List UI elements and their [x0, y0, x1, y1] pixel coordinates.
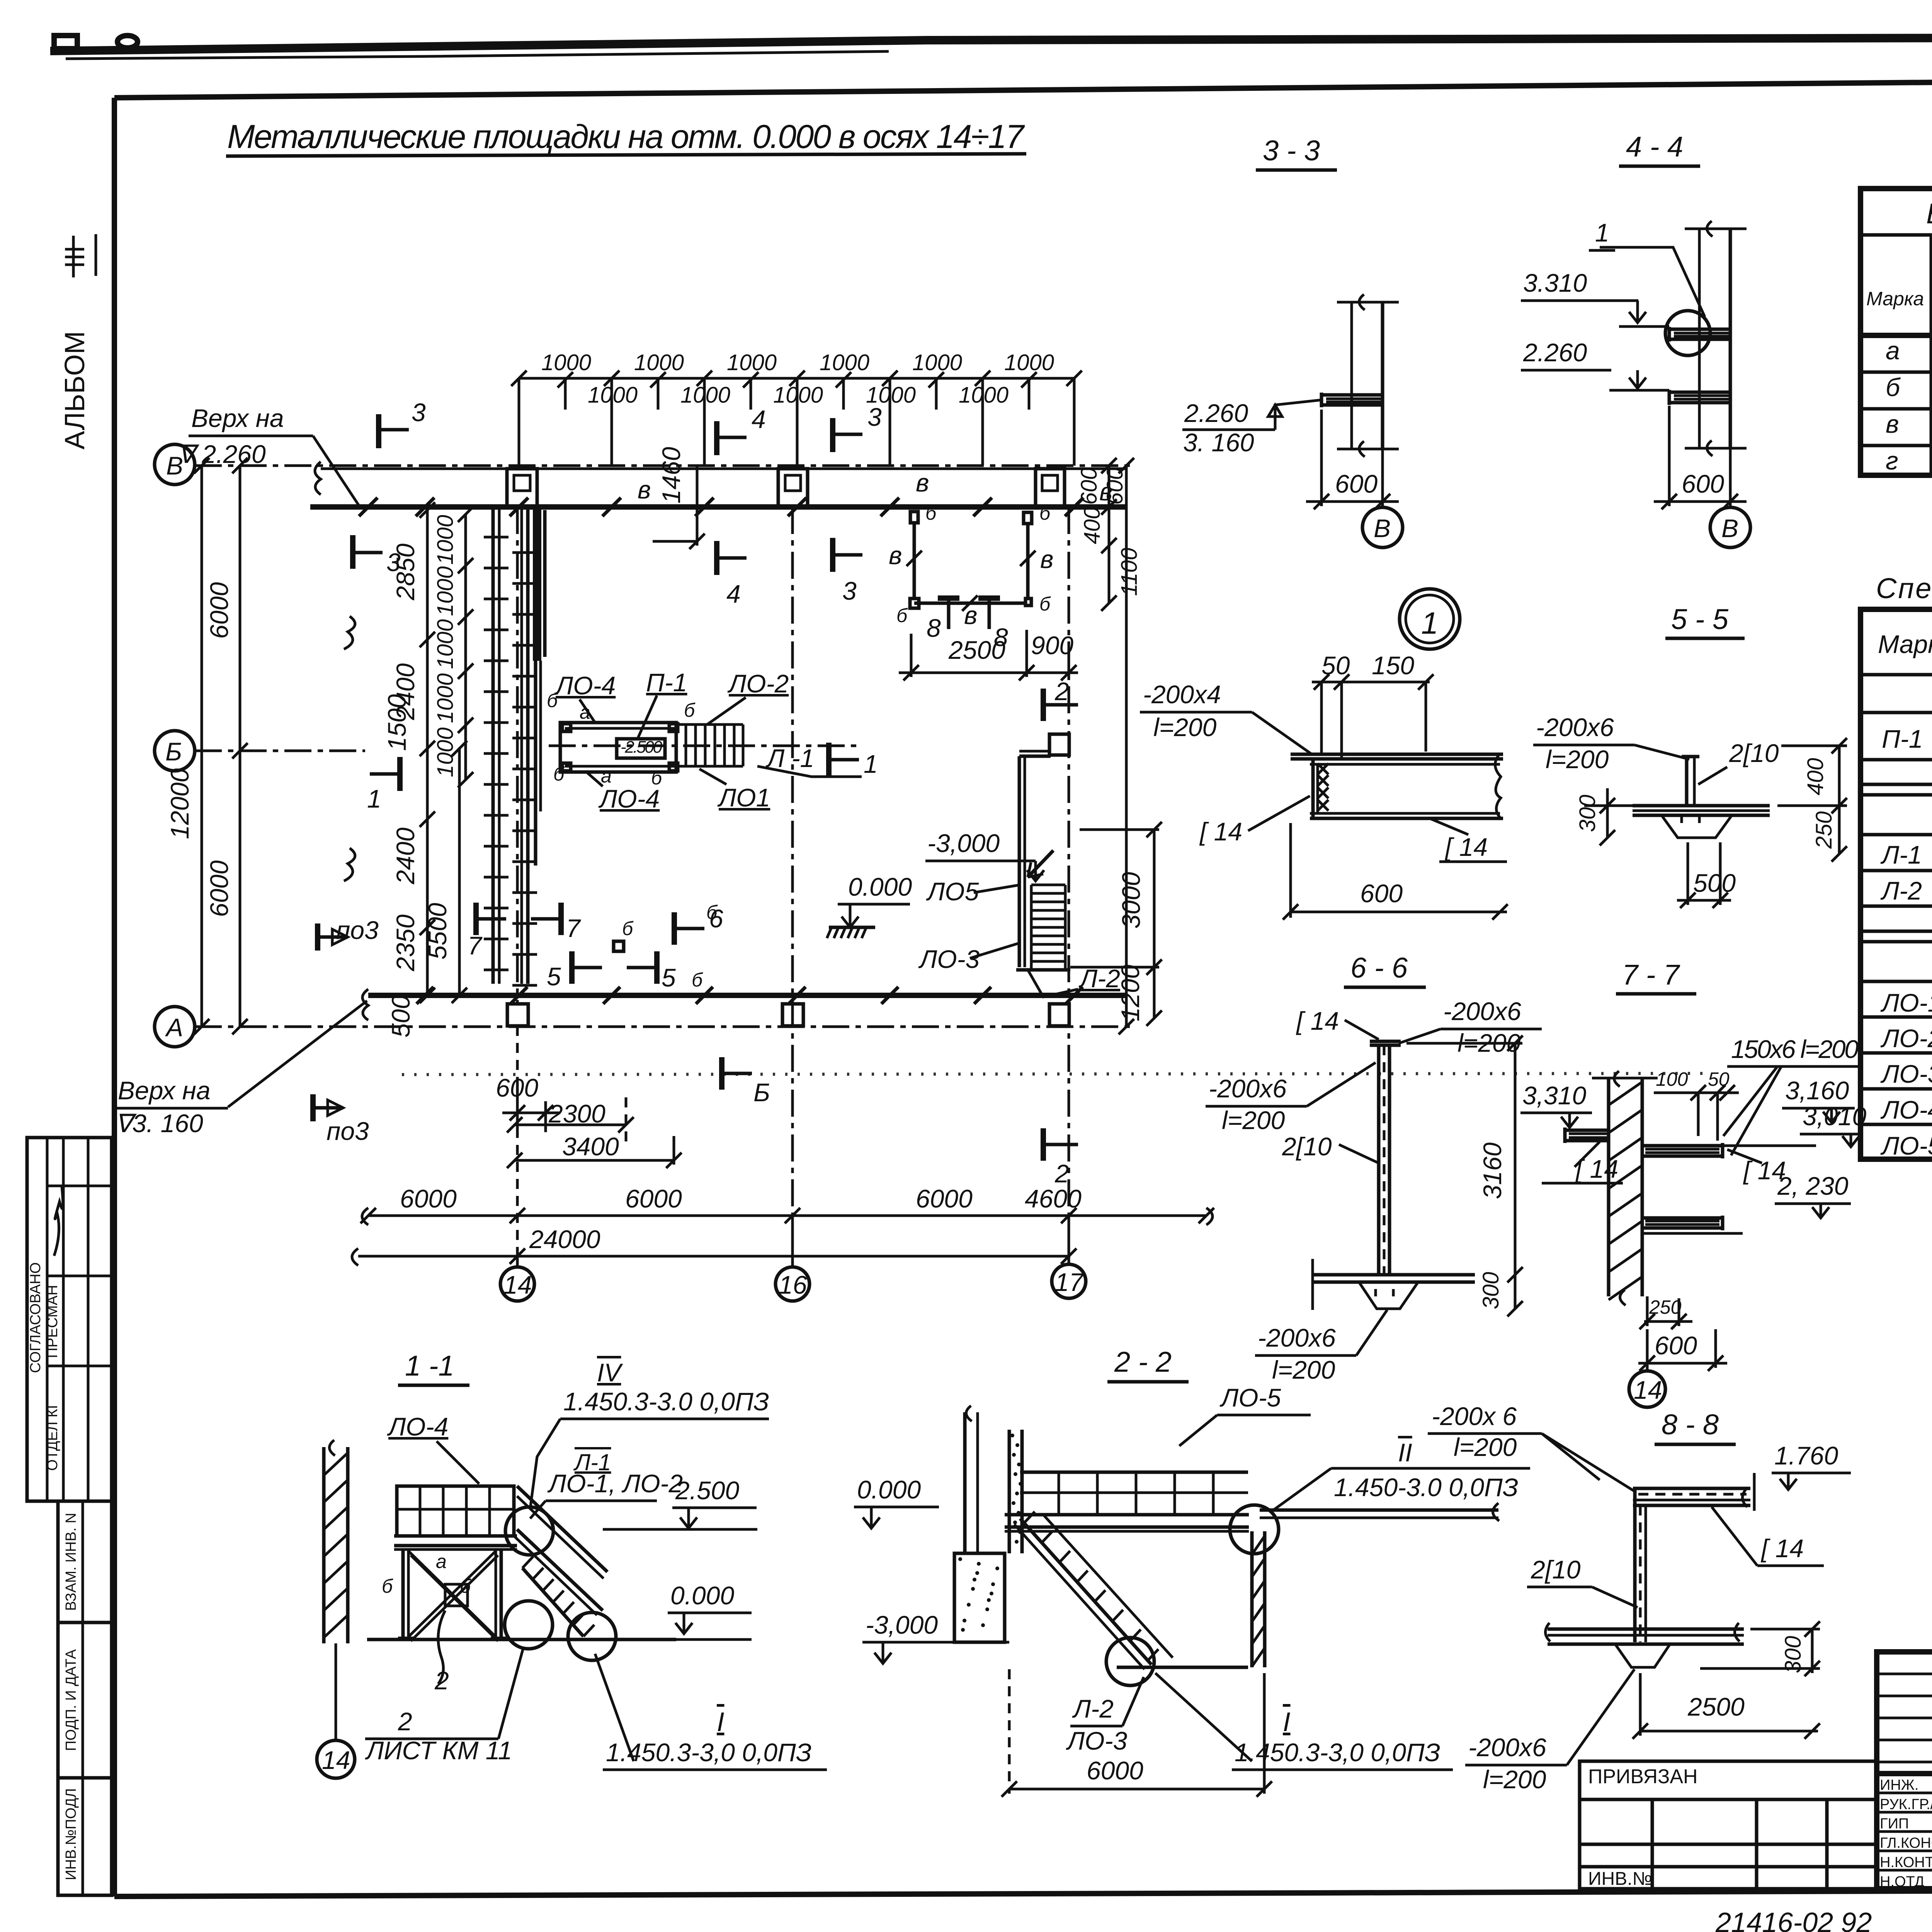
svg-text:ЛО-1: ЛО-1 [1880, 988, 1932, 1017]
4-4 column [1698, 229, 1701, 449]
6-6 left floor ticks [1311, 1259, 1314, 1310]
svg-text:[ 14: [ 14 [1199, 817, 1242, 846]
svg-text:Верх на: Верх на [191, 404, 284, 432]
svg-text:1000: 1000 [588, 383, 638, 408]
dim chain 1000 x5 inner [464, 514, 467, 780]
svg-text:7: 7 [566, 914, 581, 942]
column on Б grid 17 [1049, 734, 1069, 755]
8-8 bottom floor [1548, 1628, 1744, 1631]
svg-text:1: 1 [1595, 218, 1609, 247]
svg-text:5: 5 [662, 963, 676, 992]
svg-text:Марка: Марка [1866, 288, 1924, 310]
svg-text:2[10: 2[10 [1531, 1555, 1581, 1584]
svg-text:I: I [717, 1707, 724, 1737]
svg-text:3 - 3: 3 - 3 [1263, 134, 1320, 167]
svg-text:ЛО-4: ЛО-4 [1880, 1095, 1932, 1124]
7-7 bottom wall break and dim 250 [1620, 1290, 1626, 1305]
svg-text:1460: 1460 [657, 447, 685, 503]
vedomost bottom edge [1861, 473, 1932, 478]
svg-text:III: III [60, 245, 90, 269]
svg-text:14: 14 [1634, 1376, 1662, 1404]
svg-text:300: 300 [1575, 795, 1600, 832]
grid 16 line [791, 507, 794, 1267]
section Б flag lower [719, 1057, 724, 1090]
svg-text:150: 150 [1372, 651, 1414, 680]
4-4 axis circle В [1710, 507, 1750, 548]
svg-text:2: 2 [1054, 1159, 1069, 1188]
svg-text:l=200: l=200 [1454, 1433, 1517, 1461]
svg-text:6000: 6000 [205, 860, 233, 917]
svg-text:Н.ОТД: Н.ОТД [1880, 1874, 1925, 1890]
svg-text:2350: 2350 [391, 914, 420, 971]
svg-text:1000: 1000 [773, 383, 823, 408]
svg-text:2.260: 2.260 [1184, 399, 1248, 427]
svg-text:ОТДЕЛ КГ: ОТДЕЛ КГ [44, 1401, 61, 1471]
svg-text:Верх на: Верх на [118, 1076, 211, 1105]
по3 flag lower [310, 1094, 316, 1121]
7-7 upper left bracket [1565, 1129, 1609, 1132]
main separators [1877, 1771, 1932, 1776]
bottom chain 6000 6000 6000 4600 [368, 1214, 1206, 1217]
column at А grid 17 [1049, 1004, 1069, 1026]
break marks on 12000 line [344, 616, 355, 649]
svg-text:ИНВ.№: ИНВ.№ [1588, 1869, 1652, 1889]
svg-text:2.500: 2.500 [675, 1476, 739, 1505]
bottom line 24000 [358, 1255, 1070, 1258]
svg-text:l=200: l=200 [1222, 1106, 1285, 1134]
title block outer frame [1877, 1652, 1932, 1889]
right vertical dims 600 400 1100 [1108, 466, 1111, 603]
section 4 flag upper [714, 421, 719, 455]
title block small grid left [1877, 1673, 1932, 1675]
svg-text:3400: 3400 [562, 1132, 619, 1161]
svg-text:6000: 6000 [205, 582, 233, 639]
svg-text:0.000: 0.000 [857, 1475, 921, 1504]
4-4 upper bracket with callout 1 [1669, 328, 1730, 331]
svg-text:[ 14: [ 14 [1296, 1007, 1339, 1035]
svg-text:по3: по3 [336, 916, 379, 944]
svg-text:Марка: Марка [1878, 630, 1932, 658]
svg-text:3. 160: 3. 160 [1183, 428, 1254, 457]
vedomost data rows [1861, 371, 1932, 374]
upper right platform posts [910, 512, 918, 523]
1-1 stair from platform [517, 1529, 603, 1611]
left dim line 12000 [201, 466, 203, 1027]
svg-text:-3,000: -3,000 [927, 829, 1000, 857]
svg-text:6000: 6000 [625, 1184, 682, 1213]
svg-text:в: в [889, 541, 902, 570]
svg-text:б: б [684, 699, 696, 721]
6-6 bottom floor [1313, 1273, 1475, 1277]
svg-text:П-1: П-1 [646, 668, 687, 697]
1-1 legs and X bracing [401, 1549, 405, 1638]
svg-text:8 - 8: 8 - 8 [1662, 1408, 1719, 1440]
stair Л-1 treads [675, 724, 678, 766]
svg-text:а: а [601, 765, 612, 787]
svg-text:1000: 1000 [727, 350, 777, 375]
svg-text:8: 8 [927, 614, 941, 642]
4-4 lower bracket [1669, 391, 1730, 394]
7-7 wall hatched [1607, 1078, 1611, 1296]
svg-text:3000: 3000 [1117, 872, 1145, 929]
svg-text:-200х6: -200х6 [1209, 1074, 1287, 1103]
8-8 top beam [1633, 1487, 1750, 1490]
1-1 hatched wall left [322, 1447, 326, 1643]
svg-text:5500: 5500 [423, 903, 452, 959]
svg-text:П-1: П-1 [1882, 724, 1923, 753]
grid circle 17 [1052, 1264, 1086, 1298]
svg-text:3,010: 3,010 [1803, 1102, 1866, 1131]
2-2 cantilever beam right [1260, 1509, 1498, 1512]
по3 flag upper [315, 923, 320, 951]
3-3 bracket console [1321, 393, 1383, 397]
svg-text:21416-02 92: 21416-02 92 [1715, 1907, 1872, 1932]
svg-text:l=200: l=200 [1546, 745, 1609, 774]
svg-text:Н.КОНТР.: Н.КОНТР. [1880, 1854, 1932, 1871]
section 7 flag left [473, 903, 479, 935]
svg-text:4600: 4600 [1025, 1184, 1082, 1213]
platform П-1 outline [560, 723, 676, 772]
svg-text:3: 3 [842, 577, 857, 605]
svg-text:3: 3 [412, 398, 426, 427]
svg-text:Ведомость: Ведомость [1926, 197, 1932, 230]
svg-text:1000: 1000 [433, 515, 458, 565]
section 3 flag upper-mid [830, 418, 835, 452]
8 flags [938, 595, 959, 601]
svg-text:ИНВ.№ПОДЛ: ИНВ.№ПОДЛ [63, 1788, 79, 1880]
svg-text:б: б [1039, 593, 1051, 615]
svg-text:в: в [964, 601, 977, 629]
svg-text:б: б [382, 1575, 393, 1597]
svg-text:3.310: 3.310 [1523, 269, 1587, 297]
axis circle Б [155, 731, 195, 771]
svg-text:ЛО-5: ЛО-5 [1219, 1383, 1281, 1412]
grid circle 16 [776, 1267, 810, 1301]
ladder base column [507, 1004, 528, 1026]
svg-text:В: В [1374, 514, 1391, 543]
svg-text:б: б [553, 763, 565, 785]
svg-text:-200х6: -200х6 [1536, 713, 1614, 742]
5-5 post [1685, 758, 1689, 806]
svg-text:б: б [896, 605, 908, 626]
beam on axis В [321, 468, 1126, 470]
dim 2300 [515, 1124, 626, 1126]
svg-text:0.000: 0.000 [848, 872, 912, 901]
svg-text:-3,000: -3,000 [866, 1611, 938, 1639]
svg-text:100: 100 [1656, 1068, 1688, 1090]
ladder crane rails vertical [492, 507, 495, 984]
svg-text:1000: 1000 [1004, 350, 1054, 375]
1-1 platform railing grid [397, 1486, 514, 1536]
7-7 grid circle 14 [1646, 1329, 1649, 1370]
plan axis B line [195, 464, 1136, 467]
svg-text:В: В [1721, 514, 1738, 543]
grid 14 dash line [516, 1026, 519, 1267]
svg-text:в: в [638, 475, 651, 504]
detail 1 beam channel [1291, 753, 1503, 756]
svg-text:6000: 6000 [1087, 1756, 1143, 1785]
svg-text:2[10: 2[10 [1282, 1132, 1332, 1161]
svg-text:2[10: 2[10 [1729, 739, 1779, 767]
6-6 dim 3160 [1514, 1043, 1517, 1309]
svg-text:400: 400 [1803, 758, 1828, 796]
svg-text:1: 1 [1421, 606, 1439, 640]
svg-text:ЛО-2: ЛО-2 [1880, 1024, 1932, 1053]
column at grid 17 on В [1036, 469, 1065, 506]
section 3 flag lower-left [350, 535, 355, 569]
svg-text:ВЗАМ. ИНВ. N: ВЗАМ. ИНВ. N [63, 1513, 79, 1611]
section 3 flag lower-mid [830, 538, 835, 572]
svg-text:СОГЛАСОВАНО: СОГЛАСОВАНО [27, 1262, 44, 1373]
svg-text:ИНЖ.: ИНЖ. [1880, 1777, 1918, 1793]
axis circle А [155, 1007, 195, 1047]
svg-text:l=200: l=200 [1483, 1765, 1546, 1794]
8-8 corner post [1633, 1488, 1637, 1642]
svg-text:2400: 2400 [391, 827, 420, 884]
svg-text:1000: 1000 [433, 619, 458, 669]
corner blobs top-left [54, 36, 77, 49]
svg-text:Л-2: Л-2 [1072, 1694, 1114, 1723]
svg-text:ПРЕСМАН: ПРЕСМАН [44, 1285, 61, 1358]
svg-text:1000: 1000 [912, 350, 962, 375]
svg-text:РУК.ГР./: РУК.ГР./ [1880, 1796, 1932, 1813]
svg-text:24000: 24000 [529, 1225, 600, 1253]
svg-text:3,310: 3,310 [1522, 1081, 1586, 1110]
svg-text:б: б [651, 767, 663, 789]
svg-text:14: 14 [322, 1746, 350, 1774]
2-2 platform railing [1020, 1471, 1248, 1474]
svg-text:-200х4: -200х4 [1143, 680, 1221, 709]
svg-text:-200х6: -200х6 [1443, 997, 1521, 1026]
svg-text:6000: 6000 [916, 1184, 973, 1213]
right stair enclosure [1018, 756, 1021, 967]
svg-text:в: в [1886, 410, 1899, 438]
svg-text:1.450.3-3,0 0,0ПЗ: 1.450.3-3,0 0,0ПЗ [1235, 1738, 1440, 1767]
svg-text:3160: 3160 [1478, 1142, 1507, 1199]
plan axis Б line [195, 750, 365, 752]
section 5 flag right [654, 951, 660, 984]
dim 3000 1200 right [1153, 830, 1156, 1018]
svg-text:2500: 2500 [948, 636, 1005, 664]
svg-text:АЛЬБОМ: АЛЬБОМ [60, 331, 90, 450]
svg-text:-200х6: -200х6 [1468, 1733, 1546, 1762]
svg-text:2: 2 [398, 1707, 412, 1736]
svg-text:600: 600 [1655, 1331, 1697, 1360]
svg-text:по3: по3 [327, 1117, 369, 1145]
7-7 right bracket [1642, 1144, 1723, 1148]
detail 1 dim 600 [1289, 823, 1292, 918]
svg-text:5: 5 [547, 962, 561, 991]
svg-text:3,160: 3,160 [1785, 1076, 1849, 1105]
svg-text:1000: 1000 [959, 383, 1009, 408]
svg-text:[ 14: [ 14 [1760, 1534, 1804, 1563]
6-6 post double channel [1377, 1045, 1381, 1275]
column at grid 16 on В [778, 469, 808, 506]
svg-text:1500: 1500 [383, 694, 411, 751]
small post mid-plan [614, 941, 624, 951]
svg-text:600: 600 [1682, 469, 1724, 498]
svg-text:ЛО1: ЛО1 [717, 783, 770, 812]
dim 2500 900 [899, 672, 1078, 674]
dim 3400 [515, 1159, 674, 1162]
svg-text:900: 900 [1031, 631, 1073, 660]
svg-text:500: 500 [1693, 869, 1736, 897]
svg-text:17: 17 [1055, 1268, 1084, 1296]
svg-text:14: 14 [503, 1270, 532, 1299]
6-6 top cap [1370, 1040, 1401, 1043]
6-6 gusset [1359, 1282, 1418, 1309]
svg-text:ЛО-3: ЛО-3 [1880, 1060, 1932, 1088]
spec table frame [1861, 609, 1932, 1159]
3-3 axis circle В [1381, 502, 1384, 507]
svg-text:2500: 2500 [1687, 1692, 1745, 1721]
sidebar lower margin boxes [58, 1501, 112, 1895]
5-5 dim 500 [1677, 899, 1731, 902]
svg-text:1100: 1100 [1117, 548, 1142, 596]
column at А grid 16 [782, 1004, 803, 1026]
section 5 flag left [569, 951, 575, 984]
dim chain 2850-2400-1500-2400-2350 [426, 510, 429, 995]
svg-text:50: 50 [1321, 651, 1350, 680]
svg-text:а: а [580, 701, 590, 723]
svg-text:а: а [436, 1551, 447, 1572]
dim 5500 [458, 748, 461, 995]
svg-text:5 - 5: 5 - 5 [1671, 603, 1729, 635]
svg-text:-200х 6: -200х 6 [1432, 1402, 1517, 1430]
ladder centerline [516, 507, 519, 1005]
svg-text:ГИП: ГИП [1880, 1816, 1909, 1832]
left dim line 6000+6000 [239, 466, 241, 1027]
svg-text:ЛИСТ КМ 11: ЛИСТ КМ 11 [365, 1736, 512, 1765]
svg-text:Спецификация элементов огражде: Спецификация элементов ограждений, лестн… [1876, 572, 1932, 604]
1-1 grid circle 14 [317, 1740, 355, 1778]
svg-text:2.260: 2.260 [1523, 338, 1587, 367]
svg-text:г: г [1886, 446, 1898, 475]
svg-text:1.450.3-3,0 0,0ПЗ: 1.450.3-3,0 0,0ПЗ [606, 1738, 811, 1767]
svg-text:l=200: l=200 [1153, 713, 1217, 742]
top dimension chain 1000x6 row1 [519, 377, 1074, 380]
svg-text:ЛО-4: ЛО-4 [598, 784, 660, 813]
svg-text:600: 600 [1360, 879, 1403, 908]
plan axis А line [195, 1026, 1136, 1028]
1-1 label 2 with squiggle [438, 1611, 445, 1684]
2-2 callout circle top right [1230, 1505, 1279, 1554]
vedomost title row [1861, 233, 1932, 237]
svg-text:50: 50 [1708, 1068, 1730, 1090]
2-2 callout circle stair base [1106, 1638, 1154, 1685]
3-3 column [1350, 302, 1353, 450]
svg-text:16: 16 [779, 1270, 807, 1299]
svg-text:l=200: l=200 [1272, 1355, 1335, 1384]
svg-text:400: 400 [1080, 507, 1105, 544]
svg-text:1000: 1000 [541, 350, 591, 375]
svg-text:1000: 1000 [433, 673, 458, 723]
2-2 ground lines [949, 1641, 1005, 1644]
svg-text:1: 1 [367, 784, 381, 813]
node circle 1 double [1400, 589, 1460, 649]
section 7 flag right [558, 903, 564, 935]
section 1 flag at platform [826, 743, 832, 777]
1-1 ground line [367, 1638, 676, 1641]
drawing frame [114, 76, 1932, 98]
svg-text:4: 4 [752, 405, 766, 434]
svg-text:500: 500 [386, 995, 415, 1037]
section 1 flag left [397, 757, 403, 791]
column at grid 14 on В [507, 469, 537, 506]
svg-text:1.450-3.0 0,0ПЗ: 1.450-3.0 0,0ПЗ [1334, 1473, 1518, 1502]
svg-text:1 -1: 1 -1 [405, 1350, 454, 1382]
4-4 dim 600 [1668, 406, 1671, 506]
svg-text:7: 7 [468, 931, 483, 960]
svg-text:б: б [547, 690, 558, 711]
svg-text:2: 2 [434, 1666, 449, 1695]
detail 1 weld crosses [1318, 764, 1328, 774]
ladder rungs [484, 536, 509, 539]
svg-text:б: б [692, 969, 703, 991]
grid 17 line [1068, 507, 1070, 1267]
5-5 gusset trapezoid [1662, 815, 1732, 838]
vedomost header grid [1930, 235, 1932, 475]
svg-text:в: в [1040, 545, 1053, 573]
svg-text:2 - 2: 2 - 2 [1114, 1346, 1172, 1378]
2-2 stair stringers [1020, 1519, 1151, 1665]
-2.500 level box on platform [617, 739, 665, 758]
svg-text:II: II [1398, 1438, 1412, 1467]
designer rows [1877, 1792, 1932, 1794]
vedomost table frame [1861, 189, 1932, 475]
svg-text:4: 4 [726, 580, 741, 608]
2 section flag right lower [1041, 1128, 1046, 1161]
svg-text:I: I [1283, 1707, 1290, 1737]
column under 2 flag [1049, 734, 1069, 755]
svg-text:б: б [1886, 373, 1901, 401]
svg-text:Б: Б [753, 1078, 770, 1107]
svg-text:б: б [706, 901, 718, 923]
svg-text:ЛО-4: ЛО-4 [387, 1412, 448, 1441]
8-8 gusset [1615, 1644, 1670, 1667]
svg-text:ГЛ.КОНСТ.: ГЛ.КОНСТ. [1880, 1835, 1932, 1851]
2-2 platform deck [1005, 1513, 1249, 1517]
3-3 dim 600 [1320, 410, 1323, 506]
svg-text:в: в [916, 468, 929, 497]
svg-text:б: б [460, 1575, 471, 1597]
svg-text:Металлические площадки на отм.: Металлические площадки на отм. 0.000 в о… [227, 118, 1025, 155]
svg-text:IV: IV [597, 1358, 623, 1387]
stair down arrow [1028, 850, 1053, 877]
svg-text:1000: 1000 [433, 566, 458, 616]
svg-text:1000: 1000 [634, 350, 684, 375]
svg-text:6 - 6: 6 - 6 [1350, 952, 1408, 984]
svg-text:2, 230: 2, 230 [1777, 1172, 1849, 1200]
scan top edge line [50, 37, 1932, 51]
axis circle В [155, 444, 195, 485]
svg-text:0.000: 0.000 [670, 1581, 734, 1610]
svg-text:2: 2 [1054, 677, 1069, 706]
svg-text:∇ 2.260: ∇ 2.260 [178, 440, 266, 468]
sidebar upper stamp block [27, 1138, 112, 1501]
fold dotted artifact line [402, 1073, 1712, 1075]
privjazan box [1580, 1761, 1877, 1889]
2-2 tall left post [963, 1412, 967, 1553]
section 3 flag top-left [376, 414, 381, 448]
beam ticks [359, 498, 378, 516]
ladder heavy smudge [533, 507, 541, 661]
svg-text:ЛО-3: ЛО-3 [1066, 1726, 1128, 1755]
1-1 callout circles [505, 1507, 553, 1555]
svg-text:ЛО-4: ЛО-4 [554, 671, 616, 700]
signature squiggle [54, 1186, 63, 1256]
svg-text:4 - 4: 4 - 4 [1626, 131, 1683, 163]
